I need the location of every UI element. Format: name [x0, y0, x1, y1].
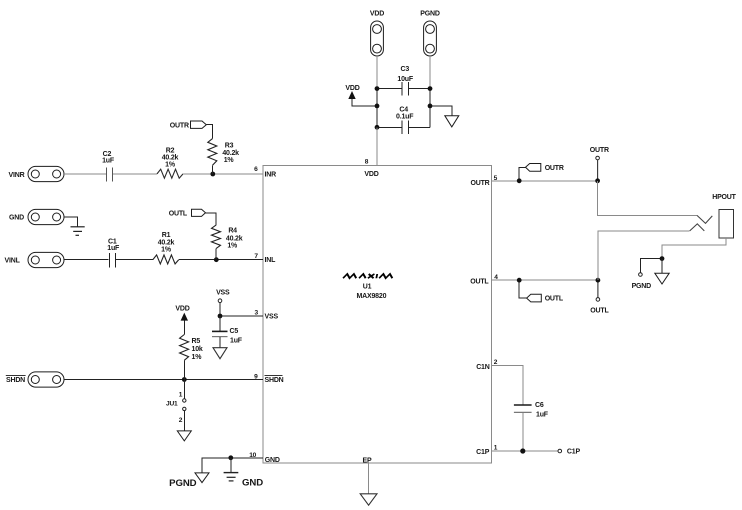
svg-text:1uF: 1uF: [102, 158, 115, 165]
svg-text:7: 7: [254, 253, 258, 260]
svg-text:1uF: 1uF: [536, 412, 549, 419]
net tag OUTR (input side): [170, 121, 207, 129]
svg-text:VSS: VSS: [216, 290, 230, 297]
svg-text:2: 2: [179, 417, 183, 424]
jack tip contact: [697, 215, 712, 223]
svg-text:PGND: PGND: [169, 478, 196, 489]
node junction PGND/C3: [428, 86, 433, 91]
node junction VDD/C3: [375, 86, 380, 91]
svg-text:PGND: PGND: [420, 10, 440, 17]
svg-text:OUTR: OUTR: [590, 147, 609, 154]
wire VDD to pin 8: [376, 127, 378, 165]
wire to OUTR tag: [519, 167, 525, 181]
svg-text:C1P: C1P: [567, 449, 581, 456]
node junction C6/C1P: [520, 448, 525, 453]
wire pin 2 C1N to C6: [492, 366, 523, 405]
capacitor C6: [514, 402, 549, 451]
svg-text:1%: 1%: [227, 243, 238, 250]
net tag OUTL (output side): [527, 294, 564, 302]
wire pin 10 GND to left: [202, 458, 263, 473]
svg-text:1%: 1%: [161, 247, 172, 254]
ground triangle below C5: [213, 348, 227, 359]
wire R4 bottom to junction: [215, 248, 217, 259]
node junction GND/PGND: [228, 455, 233, 460]
svg-text:JU1: JU1: [166, 400, 178, 407]
wire VINR to C2: [64, 173, 106, 175]
svg-text:OUTL: OUTL: [545, 296, 564, 303]
wire R5 to SHDN junction: [183, 360, 185, 379]
svg-text:C1N: C1N: [476, 364, 490, 371]
test point PGND: [632, 273, 652, 290]
svg-text:VINR: VINR: [9, 172, 25, 179]
svg-text:VDD: VDD: [364, 171, 378, 178]
wire SHDN to pin 9: [64, 379, 263, 381]
resistor R3: [208, 139, 239, 166]
svg-text:VSS: VSS: [265, 313, 279, 320]
svg-text:INL: INL: [265, 257, 277, 264]
node junction jack PGND: [660, 256, 665, 261]
ground triangle PGND (bottom left): [169, 473, 209, 489]
wire OUTR to jack tip: [598, 181, 697, 216]
wire PGND branch to test point: [640, 259, 662, 273]
connector GND: [9, 209, 64, 224]
wire pin 1 C1P to test point: [492, 450, 558, 452]
wire jack sleeve to PGND: [662, 238, 726, 259]
svg-text:1uF: 1uF: [107, 245, 120, 252]
svg-text:OUTL: OUTL: [470, 278, 489, 285]
node junction VDD branch: [375, 104, 380, 109]
svg-text:OUTR: OUTR: [170, 122, 189, 129]
ground triangle below EP: [360, 494, 377, 505]
power VDD arrow at C3/C4: [345, 85, 377, 106]
ground triangle right of C4: [445, 116, 459, 127]
resistor R4: [212, 225, 243, 250]
svg-text:VDD: VDD: [370, 10, 384, 17]
svg-text:GND: GND: [9, 215, 24, 222]
svg-text:R4: R4: [228, 227, 237, 234]
node junction INL/R4: [214, 257, 219, 262]
svg-text:SHDN: SHDN: [265, 377, 284, 384]
node junction OUTR/jack: [595, 178, 600, 183]
svg-text:VDD: VDD: [345, 85, 359, 92]
svg-text:1%: 1%: [192, 354, 203, 361]
capacitor C1: [107, 238, 120, 267]
svg-text:HPOUT: HPOUT: [712, 194, 736, 201]
resistor R2: [157, 147, 183, 178]
wire R4 top to OUTL tag: [206, 213, 217, 225]
svg-text:1%: 1%: [165, 161, 176, 168]
svg-text:VDD: VDD: [175, 305, 189, 312]
wire R3 bottom to junction: [212, 165, 214, 174]
connector VINL: [5, 252, 65, 267]
wire VSS node to pin 3: [220, 315, 263, 317]
wire ground branch right of C4: [430, 106, 452, 116]
connector VINR: [9, 166, 65, 181]
node junction INR/R3: [210, 172, 215, 177]
node junction VSS/C5: [218, 314, 223, 319]
wire right column C3-C4: [429, 89, 431, 128]
svg-text:R1: R1: [162, 232, 171, 239]
svg-text:VINL: VINL: [5, 258, 21, 265]
svg-text:40.2k: 40.2k: [158, 239, 175, 246]
ground (earth) GND symbol at pin 10: [224, 458, 264, 489]
svg-text:10uF: 10uF: [397, 76, 413, 83]
wire pin 4 OUTL: [492, 279, 598, 281]
capacitor C4: [377, 107, 430, 135]
wire R2 to pin 6 INR: [183, 173, 263, 175]
svg-text:C5: C5: [230, 328, 239, 335]
capacitor C2: [102, 151, 115, 182]
svg-text:1%: 1%: [224, 157, 235, 164]
ground (earth) at GND connector: [71, 227, 85, 236]
svg-text:SHDN: SHDN: [6, 377, 25, 384]
wire pin 5 OUTR: [492, 180, 598, 182]
op-amp U1 MAX9820 IC body: [263, 166, 492, 464]
svg-text:PGND: PGND: [632, 283, 652, 290]
svg-text:40.2k: 40.2k: [222, 150, 239, 157]
svg-text:8: 8: [365, 158, 369, 165]
svg-text:C3: C3: [401, 66, 410, 73]
jumper JU1: [166, 380, 186, 431]
jack ring contact: [690, 224, 705, 231]
wire to OUTL tag: [519, 280, 526, 298]
connector post VDD: [370, 10, 384, 56]
test point C1P: [558, 449, 580, 456]
pin name SHDN with overline: [265, 376, 284, 384]
wire C1 to R1: [116, 259, 153, 261]
svg-text:3: 3: [254, 310, 258, 317]
node junction VDD/C4: [375, 125, 380, 130]
wire PGND post down: [429, 56, 431, 89]
connector SHDN with overline: [6, 372, 64, 387]
test point VSS: [216, 290, 230, 317]
wire R1 to pin 7 INL: [179, 259, 263, 261]
ground triangle at jack: [655, 273, 669, 284]
svg-text:1uF: 1uF: [230, 337, 243, 344]
node junction ground branch: [428, 104, 433, 109]
wire EP to ground: [368, 463, 370, 494]
test point OUTR: [590, 147, 609, 181]
svg-text:10k: 10k: [192, 346, 203, 353]
svg-text:OUTL: OUTL: [590, 308, 609, 315]
svg-text:GND: GND: [242, 478, 263, 489]
net tag OUTR (output side): [526, 164, 564, 172]
ground triangle below JU1: [177, 431, 191, 441]
power VDD arrow above R5: [175, 305, 189, 334]
svg-text:C6: C6: [535, 402, 544, 409]
connector post PGND: [420, 10, 440, 56]
wire left column C3-C4: [376, 89, 378, 128]
wire OUTL to jack ring: [598, 231, 690, 280]
svg-text:40.2k: 40.2k: [226, 235, 243, 242]
wire GND connector to chassis ground: [64, 217, 78, 227]
svg-text:R3: R3: [225, 143, 234, 150]
wire VINL to C1: [64, 259, 109, 261]
svg-text:MAX9820: MAX9820: [357, 293, 387, 300]
svg-text:C1P: C1P: [476, 449, 490, 456]
svg-text:1: 1: [179, 391, 183, 398]
svg-text:40.2k: 40.2k: [162, 154, 179, 161]
wire C2 to R2: [113, 173, 157, 175]
node junction OUTR tag: [517, 178, 522, 183]
svg-text:EP: EP: [363, 458, 372, 465]
node junction OUTL/jack: [596, 278, 601, 283]
svg-text:U1: U1: [363, 284, 372, 291]
svg-text:R2: R2: [166, 147, 175, 154]
svg-text:OUTR: OUTR: [545, 165, 564, 172]
svg-text:OUTR: OUTR: [470, 180, 489, 187]
capacitor C5: [212, 316, 243, 348]
wire R3 top to OUTR tag: [206, 125, 212, 139]
svg-text:OUTL: OUTL: [169, 210, 188, 217]
svg-text:R5: R5: [192, 338, 201, 345]
wire VDD post down: [376, 56, 378, 89]
test point OUTL: [590, 280, 609, 314]
resistor R5: [180, 335, 203, 362]
resistor R1: [153, 232, 179, 264]
net tag OUTL (input side): [169, 209, 206, 217]
svg-text:INR: INR: [265, 172, 277, 179]
capacitor C3: [377, 66, 430, 95]
svg-text:6: 6: [254, 166, 258, 173]
headphone jack HPOUT body: [712, 194, 736, 238]
svg-text:GND: GND: [265, 457, 280, 464]
U1 MAXIM logo: [343, 274, 393, 278]
node junction SHDN/R5/JU1: [182, 377, 187, 382]
svg-text:0.1uF: 0.1uF: [396, 113, 414, 120]
wire junction to ground triangle: [661, 259, 663, 274]
node junction OUTL tag: [517, 278, 522, 283]
